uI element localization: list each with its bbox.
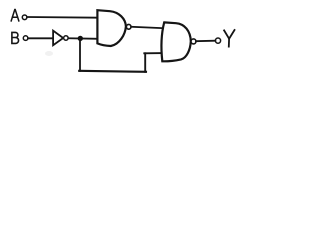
wire A to NAND1 top input (27, 16, 98, 19)
wire feedback: to NAND2 bottom input (144, 52, 163, 54)
input terminal A (22, 15, 27, 20)
junction dot (78, 36, 83, 41)
NAND gate G1 output bubble (126, 24, 131, 29)
wire NAND1 output to NAND2 top input (131, 27, 164, 28)
output terminal Y (215, 38, 220, 43)
node A label (11, 10, 19, 21)
wire NAND2 output to Y terminal (196, 40, 215, 43)
inverter U1 triangle (53, 31, 63, 46)
NAND gate G2 output bubble (191, 39, 196, 44)
wire feedback: bottom rail (79, 71, 146, 72)
wire feedback: junction down (79, 38, 81, 71)
NAND gate G2 body (161, 22, 190, 61)
node Y label (224, 30, 234, 47)
inverter U1 output bubble (64, 36, 69, 41)
input terminal B (23, 36, 28, 41)
wire inverter to NAND1 bottom input (68, 37, 98, 40)
NAND gate G1 body (97, 10, 126, 46)
wire B to inverter (28, 37, 53, 39)
wire feedback: riser (144, 53, 146, 72)
node B label (12, 32, 19, 43)
